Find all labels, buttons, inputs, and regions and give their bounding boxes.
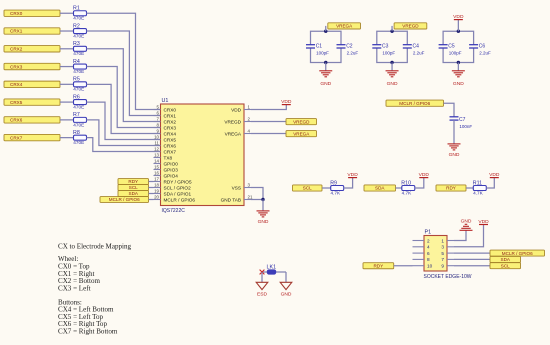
svg-text:U1: U1 <box>162 98 169 104</box>
wire <box>457 20 459 32</box>
wire <box>344 178 353 188</box>
U1 pin 4 (VREGA) <box>225 129 251 137</box>
svg-text:GND: GND <box>258 219 269 225</box>
svg-text:CRX0: CRX0 <box>10 11 23 16</box>
wire <box>87 138 161 152</box>
wire <box>87 67 161 128</box>
capacitor C2 <box>337 45 346 48</box>
port RDY (P1) <box>363 263 394 269</box>
wire <box>486 178 494 188</box>
note: CX to Electrode Mapping <box>58 242 131 335</box>
port CRX6 <box>4 117 60 123</box>
wire <box>454 225 484 247</box>
power VDD (cap bank) <box>454 19 463 21</box>
svg-text:VDD: VDD <box>489 172 500 178</box>
wire <box>377 31 408 62</box>
port MCLR / GPIO6 (top) <box>386 100 444 106</box>
svg-text:SCL / GPIO2: SCL / GPIO2 <box>164 185 192 190</box>
port CRX2 <box>4 46 60 52</box>
capacitor C5 <box>439 45 448 48</box>
U1 pin 10 (CRX5) <box>154 135 177 143</box>
svg-text:15: 15 <box>154 165 159 170</box>
svg-text:GND: GND <box>449 152 460 158</box>
U1 pin 2 (VREGD) <box>224 117 251 125</box>
wire <box>262 200 264 211</box>
wire <box>285 272 287 282</box>
svg-text:CRX5: CRX5 <box>10 100 23 105</box>
wire <box>454 252 490 254</box>
U1 pin 19 (SDA / GPIO1) <box>154 189 192 197</box>
power VDD (R9) <box>348 177 357 179</box>
svg-text:MCLR / GPIO6: MCLR / GPIO6 <box>164 197 196 202</box>
P1 pin 5 <box>441 251 454 256</box>
port CRX7 <box>4 134 60 140</box>
port SCL <box>118 185 149 191</box>
svg-text:470E: 470E <box>73 105 84 110</box>
wire <box>415 178 424 188</box>
wire <box>87 102 161 139</box>
wire <box>466 187 473 189</box>
svg-text:4.7K: 4.7K <box>473 190 484 195</box>
power GND triangle <box>280 282 292 289</box>
wire <box>87 13 161 109</box>
junction <box>324 61 327 64</box>
wire <box>262 271 286 273</box>
svg-text:C5: C5 <box>448 44 455 50</box>
svg-text:GND: GND <box>281 292 292 298</box>
svg-text:9: 9 <box>441 264 444 269</box>
svg-text:3: 3 <box>441 245 444 250</box>
U1 pin 9 (CRX4) <box>154 129 177 137</box>
svg-text:R4: R4 <box>73 59 80 65</box>
svg-text:2.2uF: 2.2uF <box>413 51 425 56</box>
P1 pin 8 <box>413 257 431 262</box>
junction <box>390 30 393 33</box>
svg-text:2.2uF: 2.2uF <box>479 51 491 56</box>
svg-text:CRX1: CRX1 <box>10 29 23 34</box>
capacitor C1 <box>306 45 315 48</box>
wire <box>251 121 286 123</box>
U1 pin 12 (CRX7) <box>154 147 177 155</box>
svg-text:11: 11 <box>154 141 159 146</box>
U1 pin 21 (GND TAB) <box>221 195 253 203</box>
capacitor C3 <box>372 45 381 48</box>
wire <box>325 63 327 71</box>
svg-text:4.7K: 4.7K <box>402 190 413 195</box>
svg-text:R1: R1 <box>73 6 80 12</box>
port CRX0 <box>4 10 60 16</box>
svg-text:C6: C6 <box>479 44 486 50</box>
svg-text:R5: R5 <box>73 77 80 83</box>
U1 pin 14 (GPIO0) <box>154 159 179 167</box>
svg-text:C4: C4 <box>413 44 420 50</box>
capacitor C4 <box>403 45 412 48</box>
svg-text:19: 19 <box>154 189 159 194</box>
svg-text:100pF: 100pF <box>382 51 395 56</box>
svg-text:2.2uF: 2.2uF <box>347 51 359 56</box>
svg-text:470E: 470E <box>73 69 84 74</box>
wire <box>60 101 74 103</box>
wire <box>391 63 393 71</box>
svg-text:MCLR / GPIO6: MCLR / GPIO6 <box>399 101 430 106</box>
wire <box>453 120 455 144</box>
wire <box>443 31 474 62</box>
svg-text:SCL: SCL <box>129 185 138 190</box>
svg-text:VDD: VDD <box>453 14 464 20</box>
svg-text:7: 7 <box>441 257 444 262</box>
wire <box>261 272 263 282</box>
resistor R7 <box>74 117 87 122</box>
junction <box>457 30 460 33</box>
svg-text:CRX7: CRX7 <box>10 135 23 140</box>
svg-text:4: 4 <box>427 245 430 250</box>
svg-text:SOCKET EDGE-10W: SOCKET EDGE-10W <box>424 274 472 280</box>
op-amp U1 body <box>161 104 245 206</box>
svg-text:2: 2 <box>427 238 430 243</box>
connector P1 body <box>424 236 447 272</box>
wire <box>87 120 161 146</box>
wire <box>454 265 490 267</box>
svg-text:GND: GND <box>320 81 331 87</box>
no-ERC marker <box>260 270 265 275</box>
power VDD (U1 pin1) <box>282 104 291 106</box>
port CRX3 <box>4 63 60 69</box>
svg-text:10: 10 <box>154 135 159 140</box>
wire <box>251 199 263 201</box>
U1 pin 1 (VDD) <box>231 105 251 113</box>
svg-text:CRX3: CRX3 <box>10 64 23 69</box>
svg-text:VREGD: VREGD <box>402 24 419 29</box>
U1 pin 7 (CRX2) <box>154 117 177 125</box>
svg-text:CRX3: CRX3 <box>164 125 177 130</box>
svg-text:CRX4: CRX4 <box>10 82 23 87</box>
svg-text:18: 18 <box>154 183 159 188</box>
U1 pin 8 (CRX3) <box>154 123 177 131</box>
power VDD (P1 pin3) <box>479 224 488 226</box>
U1 pin 18 (SCL / GPIO2) <box>154 183 192 191</box>
wire <box>457 63 459 71</box>
P1 pin 1 <box>441 238 454 243</box>
wire <box>60 119 74 121</box>
wire <box>311 31 342 62</box>
svg-text:SDA: SDA <box>501 257 511 262</box>
wire <box>322 187 331 189</box>
junction <box>457 61 460 64</box>
resistor R6 <box>74 100 87 105</box>
wire <box>60 137 74 139</box>
port MCLR / GPIO6 <box>100 197 149 203</box>
svg-text:20: 20 <box>154 195 159 200</box>
ground (P1 pin1) <box>460 224 473 230</box>
svg-text:13: 13 <box>154 153 159 158</box>
U1 pin 6 (CRX1) <box>154 111 177 119</box>
wire <box>149 187 154 189</box>
svg-text:CRX6: CRX6 <box>10 118 23 123</box>
svg-text:VDD: VDD <box>281 99 292 105</box>
port SCL (P1) <box>490 263 521 269</box>
U1 pin 16 (GPIO4) <box>154 171 179 179</box>
svg-text:8: 8 <box>427 257 430 262</box>
svg-text:IQS7222C: IQS7222C <box>162 208 186 214</box>
junction <box>390 61 393 64</box>
svg-text:VDD: VDD <box>231 107 242 112</box>
U1 pin 20 (MCLR / GPIO6) <box>154 195 196 203</box>
ground (C7) <box>448 144 461 150</box>
port VREGA (U1) <box>286 131 317 137</box>
svg-text:12: 12 <box>154 147 159 152</box>
port VREGD (cap bank) <box>394 23 427 29</box>
port RDY (pullup) <box>436 185 466 191</box>
svg-text:RDY: RDY <box>446 186 456 191</box>
svg-text:CRX1: CRX1 <box>164 113 177 118</box>
resistor R2 <box>74 29 87 34</box>
wire <box>60 83 74 85</box>
svg-text:5: 5 <box>441 251 444 256</box>
svg-text:VREGA: VREGA <box>225 131 242 136</box>
svg-text:C2: C2 <box>346 44 353 50</box>
svg-text:21: 21 <box>248 195 253 200</box>
svg-text:MCLR / GPIO6: MCLR / GPIO6 <box>109 197 140 202</box>
svg-text:16: 16 <box>154 171 159 176</box>
svg-text:RDY: RDY <box>373 263 383 268</box>
resistor R3 <box>74 46 87 51</box>
U1 pin 15 (GPIO3) <box>154 165 179 173</box>
svg-text:GND: GND <box>453 81 464 87</box>
resistor R1 <box>74 11 87 16</box>
U1 pin 17 (RDY / GPIO5) <box>154 177 192 185</box>
svg-text:SCL: SCL <box>303 186 312 191</box>
wire <box>149 199 154 201</box>
resistor R11 <box>473 186 486 191</box>
junction <box>261 198 264 201</box>
svg-text:RDY / GPIO5: RDY / GPIO5 <box>164 179 192 184</box>
svg-text:470E: 470E <box>73 33 84 38</box>
ground (bank 2) <box>386 71 399 77</box>
port SDA (P1) <box>490 256 521 262</box>
svg-text:R2: R2 <box>73 23 80 29</box>
svg-text:RDY: RDY <box>128 179 138 184</box>
P1 pin 3 <box>441 245 454 250</box>
wire <box>60 12 74 14</box>
port VREGA (cap bank) <box>328 23 361 29</box>
wire <box>251 133 286 135</box>
P1 pin 6 <box>413 251 431 256</box>
svg-text:SDA: SDA <box>129 191 139 196</box>
svg-text:C3: C3 <box>382 44 389 50</box>
port SDA (pullup) <box>364 185 396 191</box>
wire <box>454 230 466 240</box>
capacitor C6 <box>469 45 478 48</box>
power VDD (R11) <box>490 177 499 179</box>
svg-text:4.7K: 4.7K <box>331 190 342 195</box>
wire <box>394 265 413 267</box>
svg-text:17: 17 <box>154 177 159 182</box>
P1 pin 7 <box>441 257 454 262</box>
svg-text:CRX6: CRX6 <box>164 143 177 148</box>
wire <box>396 187 402 189</box>
P1 pin 4 <box>413 245 431 250</box>
ground (bank 1) <box>319 71 332 77</box>
svg-text:C7: C7 <box>459 117 466 123</box>
svg-text:VDD: VDD <box>347 172 358 178</box>
svg-text:GND TAB: GND TAB <box>221 197 241 202</box>
svg-text:470E: 470E <box>73 51 84 56</box>
svg-text:CRX7: CRX7 <box>164 149 177 154</box>
svg-text:6: 6 <box>427 251 430 256</box>
port CRX5 <box>4 99 60 105</box>
svg-text:VREGA: VREGA <box>293 131 310 136</box>
svg-text:ESD: ESD <box>257 292 268 298</box>
wire <box>454 258 490 260</box>
svg-text:100pF: 100pF <box>316 51 329 56</box>
wire <box>149 193 154 195</box>
svg-text:VDD: VDD <box>478 219 489 225</box>
svg-text:10: 10 <box>427 264 433 269</box>
svg-text:R10: R10 <box>401 180 411 186</box>
ground (bank 3) <box>452 71 465 77</box>
wire <box>60 30 74 32</box>
U1 pin 5 (CRX0) <box>154 105 177 113</box>
wire <box>60 48 74 50</box>
capacitor C7 <box>450 117 459 120</box>
wire <box>60 66 74 68</box>
port CRX4 <box>4 81 60 87</box>
P1 pin 2 <box>413 238 431 243</box>
svg-text:VSS: VSS <box>232 185 241 190</box>
port RDY <box>118 179 149 185</box>
svg-text:R9: R9 <box>330 180 337 186</box>
svg-text:GPIO3: GPIO3 <box>164 167 179 172</box>
svg-text:SDA: SDA <box>375 186 385 191</box>
svg-text:CX3 = Left: CX3 = Left <box>58 284 91 292</box>
svg-text:MCLR / GPIO6: MCLR / GPIO6 <box>502 251 533 256</box>
resistor R8 <box>74 135 87 140</box>
svg-text:470E: 470E <box>73 140 84 145</box>
svg-text:R8: R8 <box>73 130 80 136</box>
resistor R5 <box>74 82 87 87</box>
svg-text:14: 14 <box>154 159 159 164</box>
wire <box>444 103 455 117</box>
port SCL (pullup) <box>293 185 323 191</box>
port MCLR / GPIO6 (P1) <box>490 250 545 256</box>
svg-text:VREGA: VREGA <box>336 24 353 29</box>
svg-text:GND: GND <box>387 81 398 87</box>
svg-text:100pF: 100pF <box>449 51 462 56</box>
junction <box>324 30 327 33</box>
svg-text:R3: R3 <box>73 41 80 47</box>
svg-text:100nF: 100nF <box>459 124 472 129</box>
svg-text:CX7 = Right Bottom: CX7 = Right Bottom <box>58 328 118 336</box>
svg-text:CRX2: CRX2 <box>164 119 177 124</box>
svg-text:VREGD: VREGD <box>224 119 241 124</box>
P1 pin 10 <box>413 264 433 269</box>
svg-text:P1: P1 <box>425 230 432 236</box>
wire <box>251 188 263 200</box>
U1 pin 11 (CRX6) <box>154 141 177 149</box>
svg-text:1: 1 <box>441 238 444 243</box>
svg-text:GND: GND <box>461 218 472 224</box>
svg-text:CRX2: CRX2 <box>10 46 23 51</box>
wire <box>391 26 393 31</box>
port VREGD (U1) <box>286 119 317 125</box>
power ESD triangle <box>256 282 268 289</box>
svg-text:C1: C1 <box>316 44 323 50</box>
wire <box>149 181 154 183</box>
svg-text:CRX4: CRX4 <box>164 131 177 136</box>
U1 pin 3 (VSS) <box>232 183 251 191</box>
ground (U1 VSS) <box>257 211 270 217</box>
power VDD (R10) <box>419 177 428 179</box>
svg-text:VREGD: VREGD <box>293 119 310 124</box>
P1 pin 9 <box>441 264 454 269</box>
svg-text:GPIO0: GPIO0 <box>164 161 179 166</box>
wire <box>87 84 161 133</box>
svg-text:CRX5: CRX5 <box>164 137 177 142</box>
svg-text:VDD: VDD <box>419 172 430 178</box>
svg-text:SDA / GPIO1: SDA / GPIO1 <box>164 191 192 196</box>
jumper LK1 body <box>267 270 275 274</box>
resistor R10 <box>402 186 415 191</box>
svg-text:CRX0: CRX0 <box>164 107 177 112</box>
svg-text:SCL: SCL <box>501 263 510 268</box>
wire <box>87 31 161 115</box>
svg-text:R7: R7 <box>73 112 80 118</box>
svg-text:R11: R11 <box>473 180 482 186</box>
svg-text:R6: R6 <box>73 94 80 100</box>
U1 pin 13 (TX8) <box>154 153 173 161</box>
svg-text:470E: 470E <box>73 122 84 127</box>
wire <box>325 26 327 31</box>
port CRX1 <box>4 28 60 34</box>
wire <box>87 49 161 122</box>
resistor R9 <box>331 186 344 191</box>
svg-text:CX to Electrode Mapping: CX to Electrode Mapping <box>58 242 131 250</box>
wire <box>251 105 286 110</box>
svg-text:TX8: TX8 <box>164 155 173 160</box>
resistor R4 <box>74 64 87 69</box>
port SDA <box>118 191 149 197</box>
svg-text:GPIO4: GPIO4 <box>164 173 179 178</box>
svg-text:470E: 470E <box>73 87 84 92</box>
svg-text:470E: 470E <box>73 16 84 21</box>
